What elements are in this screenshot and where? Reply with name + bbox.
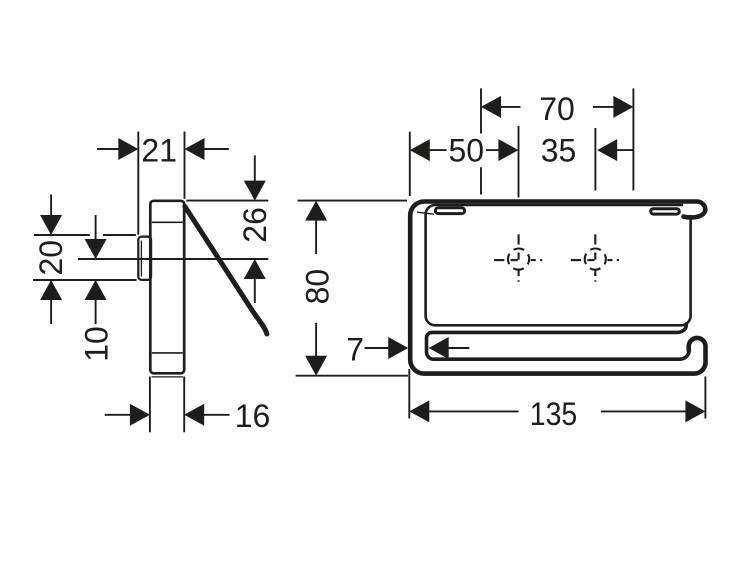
svg-text:7: 7 [346,331,364,367]
dim 7: left-pointing arrow at bar end [429,337,449,359]
dim 20: down arrow [40,215,62,235]
svg-text:10: 10 [79,326,115,362]
side view: plate bottom face line [152,376,183,378]
svg-text:80: 80 [300,269,336,305]
dim 80: extension line top [298,200,408,202]
dim 50: left arrow [410,139,430,161]
svg-text:50: 50 [449,133,485,169]
svg-text:70: 70 [539,91,575,127]
side view: wall mounting block [138,237,151,280]
side view: wall plate [150,201,184,373]
dim 70: left arrow [481,96,501,118]
dim 80: down arrow [305,356,327,376]
dim 35: right arrow [597,139,617,161]
dim 21: right arrow [185,138,205,160]
front view: left spring tab [435,208,464,214]
dim 135: extension line left [408,369,410,419]
svg-text:20: 20 [33,240,69,276]
dim 26: extension line top [186,200,268,202]
dim 16: extension line right [183,377,185,433]
dim 20: extension line top [34,234,90,236]
dim 16: left arrow [130,404,150,426]
dim 26: down arrow [244,181,266,201]
dim 21: extension line right [184,132,186,199]
dim 135: extension line right [704,377,706,419]
screw hole marker at x=595.3 [571,234,619,281]
dim 20/10: center extension line [78,258,268,260]
dim 10: down arrow [85,239,107,259]
side view: roll-holder arm [185,206,267,334]
dim 80: up arrow [305,201,327,221]
dim 135: left arrow [409,400,429,422]
side view: block inner edge [140,241,142,277]
svg-text:16: 16 [235,398,271,434]
dim 70: right arrow [613,96,633,118]
side view: plate inner edge top [152,221,183,223]
dim 70: extension line left (two segments) [480,88,482,133]
front view: right spring tab [651,209,680,214]
dim 21: extension line left [137,132,139,235]
side view: plate inner edge bottom [152,352,183,354]
dim 50: extension line left [409,132,411,196]
dim 135: right arrow [685,400,705,422]
dim 16: right arrow [184,404,204,426]
front view: outer C-profile with rolled lips [410,202,705,374]
dim 80: extension line bottom [296,375,408,377]
dim 35: centerline right screw [594,128,596,191]
dim 10: up arrow [85,280,107,300]
front view: back panel [426,205,691,325]
dim 50: right arrow [498,139,518,161]
svg-text:21: 21 [141,133,177,169]
dim 26: up arrow [244,259,266,279]
dim 16: extension line left [149,377,151,433]
svg-text:135: 135 [530,396,578,432]
dim 35: centerline left screw [518,126,520,198]
svg-text:26: 26 [237,207,273,243]
front view: top bar inner contact line [417,212,434,214]
screw hole marker at x=518.6 [494,234,542,281]
svg-text:35: 35 [541,133,577,169]
dim 20: up arrow [40,280,62,300]
dim 20/10: extension line bottom [33,279,137,281]
dim 21: left arrow [118,138,138,160]
dim 70: extension line right [632,88,634,190]
front view: paper roll bar [426,324,689,359]
dim 7: right-pointing arrow at outer wall [388,337,408,359]
